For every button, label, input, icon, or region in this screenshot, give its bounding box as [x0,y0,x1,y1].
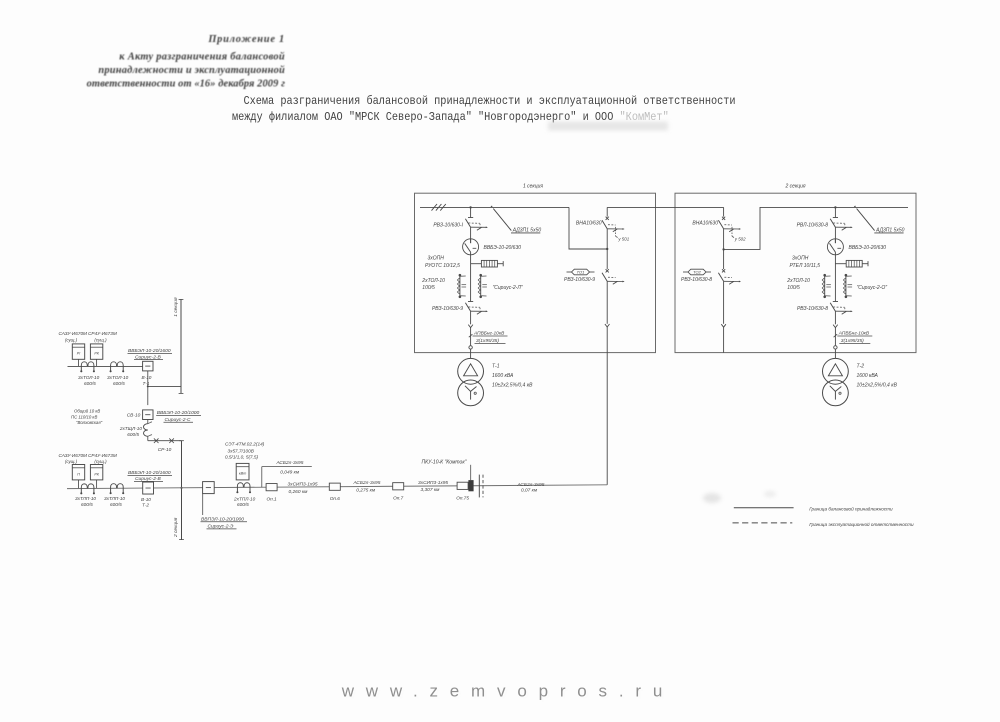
svg-text:РВЗ-10/630-9: РВЗ-10/630-9 [432,306,463,312]
svg-text:3хТЛП-10: 3хТЛП-10 [104,496,125,501]
svg-text:"Волховская": "Волховская" [76,420,103,425]
svg-text:Граница балансовой принадлежно: Граница балансовой принадлежности [809,505,893,511]
svg-text:РТЕЛ 10/11,5: РТЕЛ 10/11,5 [790,263,821,269]
svg-text:(сущ.): (сущ.) [65,459,78,464]
svg-text:3хСИП3-1х95: 3хСИП3-1х95 [418,480,448,486]
svg-text:Т-1: Т-1 [492,363,500,369]
svg-text:ВВБЭ-10-20/630: ВВБЭ-10-20/630 [484,245,522,251]
svg-text:10±2х2,5%/0,4 кВ: 10±2х2,5%/0,4 кВ [492,383,533,389]
svg-text:600/5: 600/5 [113,381,125,386]
svg-text:Оп.7: Оп.7 [393,496,404,501]
svg-text:Граница эксплуатационной ответ: Граница эксплуатационной ответственности [809,521,914,527]
svg-text:600/5: 600/5 [110,502,122,507]
svg-text:3хТОЛ-10: 3хТОЛ-10 [78,375,100,380]
svg-text:600/5: 600/5 [81,502,93,507]
svg-text:РВЛ-10/630-8: РВЛ-10/630-8 [797,222,829,228]
svg-text:РУОТС 10/12,5: РУОТС 10/12,5 [425,263,460,269]
svg-text:ПКУ-10-К "Комток": ПКУ-10-К "Комток" [422,459,467,465]
svg-text:Оп.1: Оп.1 [267,496,278,501]
svg-text:ВНА10/630: ВНА10/630 [576,221,602,227]
svg-text:(сущ.): (сущ.) [94,459,107,464]
svg-text:(сущ.): (сущ.) [65,337,78,342]
svg-text:2хТОЛ-10: 2хТОЛ-10 [786,278,810,284]
svg-text:2хТЩЛ-10: 2хТЩЛ-10 [119,426,143,431]
svg-text:Оп.75: Оп.75 [456,495,469,500]
svg-text:1600 кВА: 1600 кВА [492,373,514,379]
svg-text:В-10: В-10 [142,375,152,380]
svg-text:100/5: 100/5 [422,285,435,291]
svg-text:600/5: 600/5 [237,502,249,507]
svg-text:РВЗ-10/630-8: РВЗ-10/630-8 [681,277,712,283]
svg-text:Т-1: Т-1 [143,381,150,386]
svg-text:(сущ.): (сущ.) [94,337,107,342]
svg-text:СВ-10: СВ-10 [127,412,141,418]
svg-text:у 502: у 502 [734,236,746,241]
svg-text:АД3П1 5х50: АД3П1 5х50 [875,228,905,234]
svg-text:"Сириус-2-Л": "Сириус-2-Л" [493,285,523,291]
svg-text:САЗУ-И670М: САЗУ-И670М [59,453,88,458]
svg-text:0,5/1/1,0, 5(7,5): 0,5/1/1,0, 5(7,5) [225,455,259,460]
svg-text:0,260 км: 0,260 км [289,489,309,495]
svg-text:СР4У-И673М: СР4У-И673М [88,453,117,458]
svg-text:100/5: 100/5 [787,285,800,291]
svg-text:РВЗ-10/630-8: РВЗ-10/630-8 [797,306,828,312]
svg-text:СЭТ-4ТМ.02.2(14): СЭТ-4ТМ.02.2(14) [225,442,265,447]
svg-text:1 секция: 1 секция [523,184,543,190]
svg-text:Т-2: Т-2 [857,363,865,369]
svg-text:3х57,7/100В: 3х57,7/100В [228,448,254,453]
svg-text:3(1х95/35): 3(1х95/35) [476,338,499,344]
svg-text:РК: РК [94,352,99,356]
svg-text:РI: РI [77,352,80,356]
svg-text:АД3П1 5х50: АД3П1 5х50 [512,228,542,234]
svg-text:АПВБнг-10кВ: АПВБнг-10кВ [473,331,505,337]
svg-text:АПВБнг-10кВ: АПВБнг-10кВ [838,331,870,337]
svg-text:1600 кВА: 1600 кВА [857,373,879,379]
svg-text:3хОПН: 3хОПН [792,256,809,262]
svg-text:Общий 10 кВ: Общий 10 кВ [74,409,100,414]
svg-text:600/5: 600/5 [84,381,96,386]
svg-text:кВт: кВт [239,472,247,476]
svg-text:2хТОЛ-10: 2хТОЛ-10 [421,278,445,284]
svg-text:0,275 км: 0,275 км [356,488,376,494]
svg-text:РК: РК [94,472,99,476]
svg-text:3хОПН: 3хОПН [428,256,445,262]
svg-text:АСБ2л-3х95: АСБ2л-3х95 [276,460,304,466]
svg-text:ПС 110/10 кВ: ПС 110/10 кВ [71,414,97,419]
svg-text:РВЗ-10/630-I: РВЗ-10/630-I [433,222,463,228]
svg-text:принадлежности и эксплуатацион: принадлежности и эксплуатационной [98,65,285,76]
svg-text:к Акту разграничения балансово: к Акту разграничения балансовой [119,52,285,63]
svg-text:ТО2: ТО2 [693,270,701,275]
svg-text:СР-10: СР-10 [158,447,172,453]
svg-text:П: П [77,472,80,476]
svg-text:Оп.6: Оп.6 [330,496,341,501]
svg-text:2 секция: 2 секция [784,184,805,190]
svg-text:"Сириус-2-О": "Сириус-2-О" [857,285,888,291]
svg-text:3,307 км: 3,307 км [421,487,441,493]
svg-text:РВЗ-10/630-9: РВЗ-10/630-9 [564,277,595,283]
svg-text:3хТОЛ-10: 3хТОЛ-10 [107,375,129,380]
svg-text:ответственности от «16» декабр: ответственности от «16» декабря 2009 г [87,79,285,90]
svg-text:В-10: В-10 [141,497,151,502]
svg-text:2хТПЛ-10: 2хТПЛ-10 [233,497,256,502]
svg-text:1 секция: 1 секция [173,297,179,317]
svg-text:0,07 км: 0,07 км [521,488,538,494]
svg-text:2 секция: 2 секция [173,517,179,538]
svg-text:Т-2: Т-2 [142,503,149,508]
svg-text:ВНА10/630: ВНА10/630 [692,221,718,227]
svg-text:www.zemvopros.ru: www.zemvopros.ru [341,681,674,700]
svg-text:СР4У-И673М: СР4У-И673М [88,331,117,336]
svg-text:Схема разграничения балансовой: Схема разграничения балансовой принадлеж… [243,94,735,108]
svg-text:3хТЛП-10: 3хТЛП-10 [75,496,96,501]
svg-text:ТО1: ТО1 [577,270,585,275]
svg-text:АСБ2л-3х95: АСБ2л-3х95 [353,480,381,486]
svg-text:600/5: 600/5 [127,432,139,437]
svg-text:0,049 км: 0,049 км [280,469,300,475]
svg-text:10±2х2,5%/0,4 кВ: 10±2х2,5%/0,4 кВ [857,383,898,389]
svg-text:3(1х95/35): 3(1х95/35) [841,338,864,344]
svg-text:3хСИП3-1х95: 3хСИП3-1х95 [288,482,318,488]
svg-text:ВВБЭ-10-20/630: ВВБЭ-10-20/630 [849,245,887,251]
svg-text:у 501: у 501 [617,236,629,241]
svg-text:САЗУ-И670М: САЗУ-И670М [59,331,88,336]
svg-text:Приложение 1: Приложение 1 [207,34,285,45]
svg-text:АСБ2л-3х95: АСБ2л-3х95 [517,482,545,488]
